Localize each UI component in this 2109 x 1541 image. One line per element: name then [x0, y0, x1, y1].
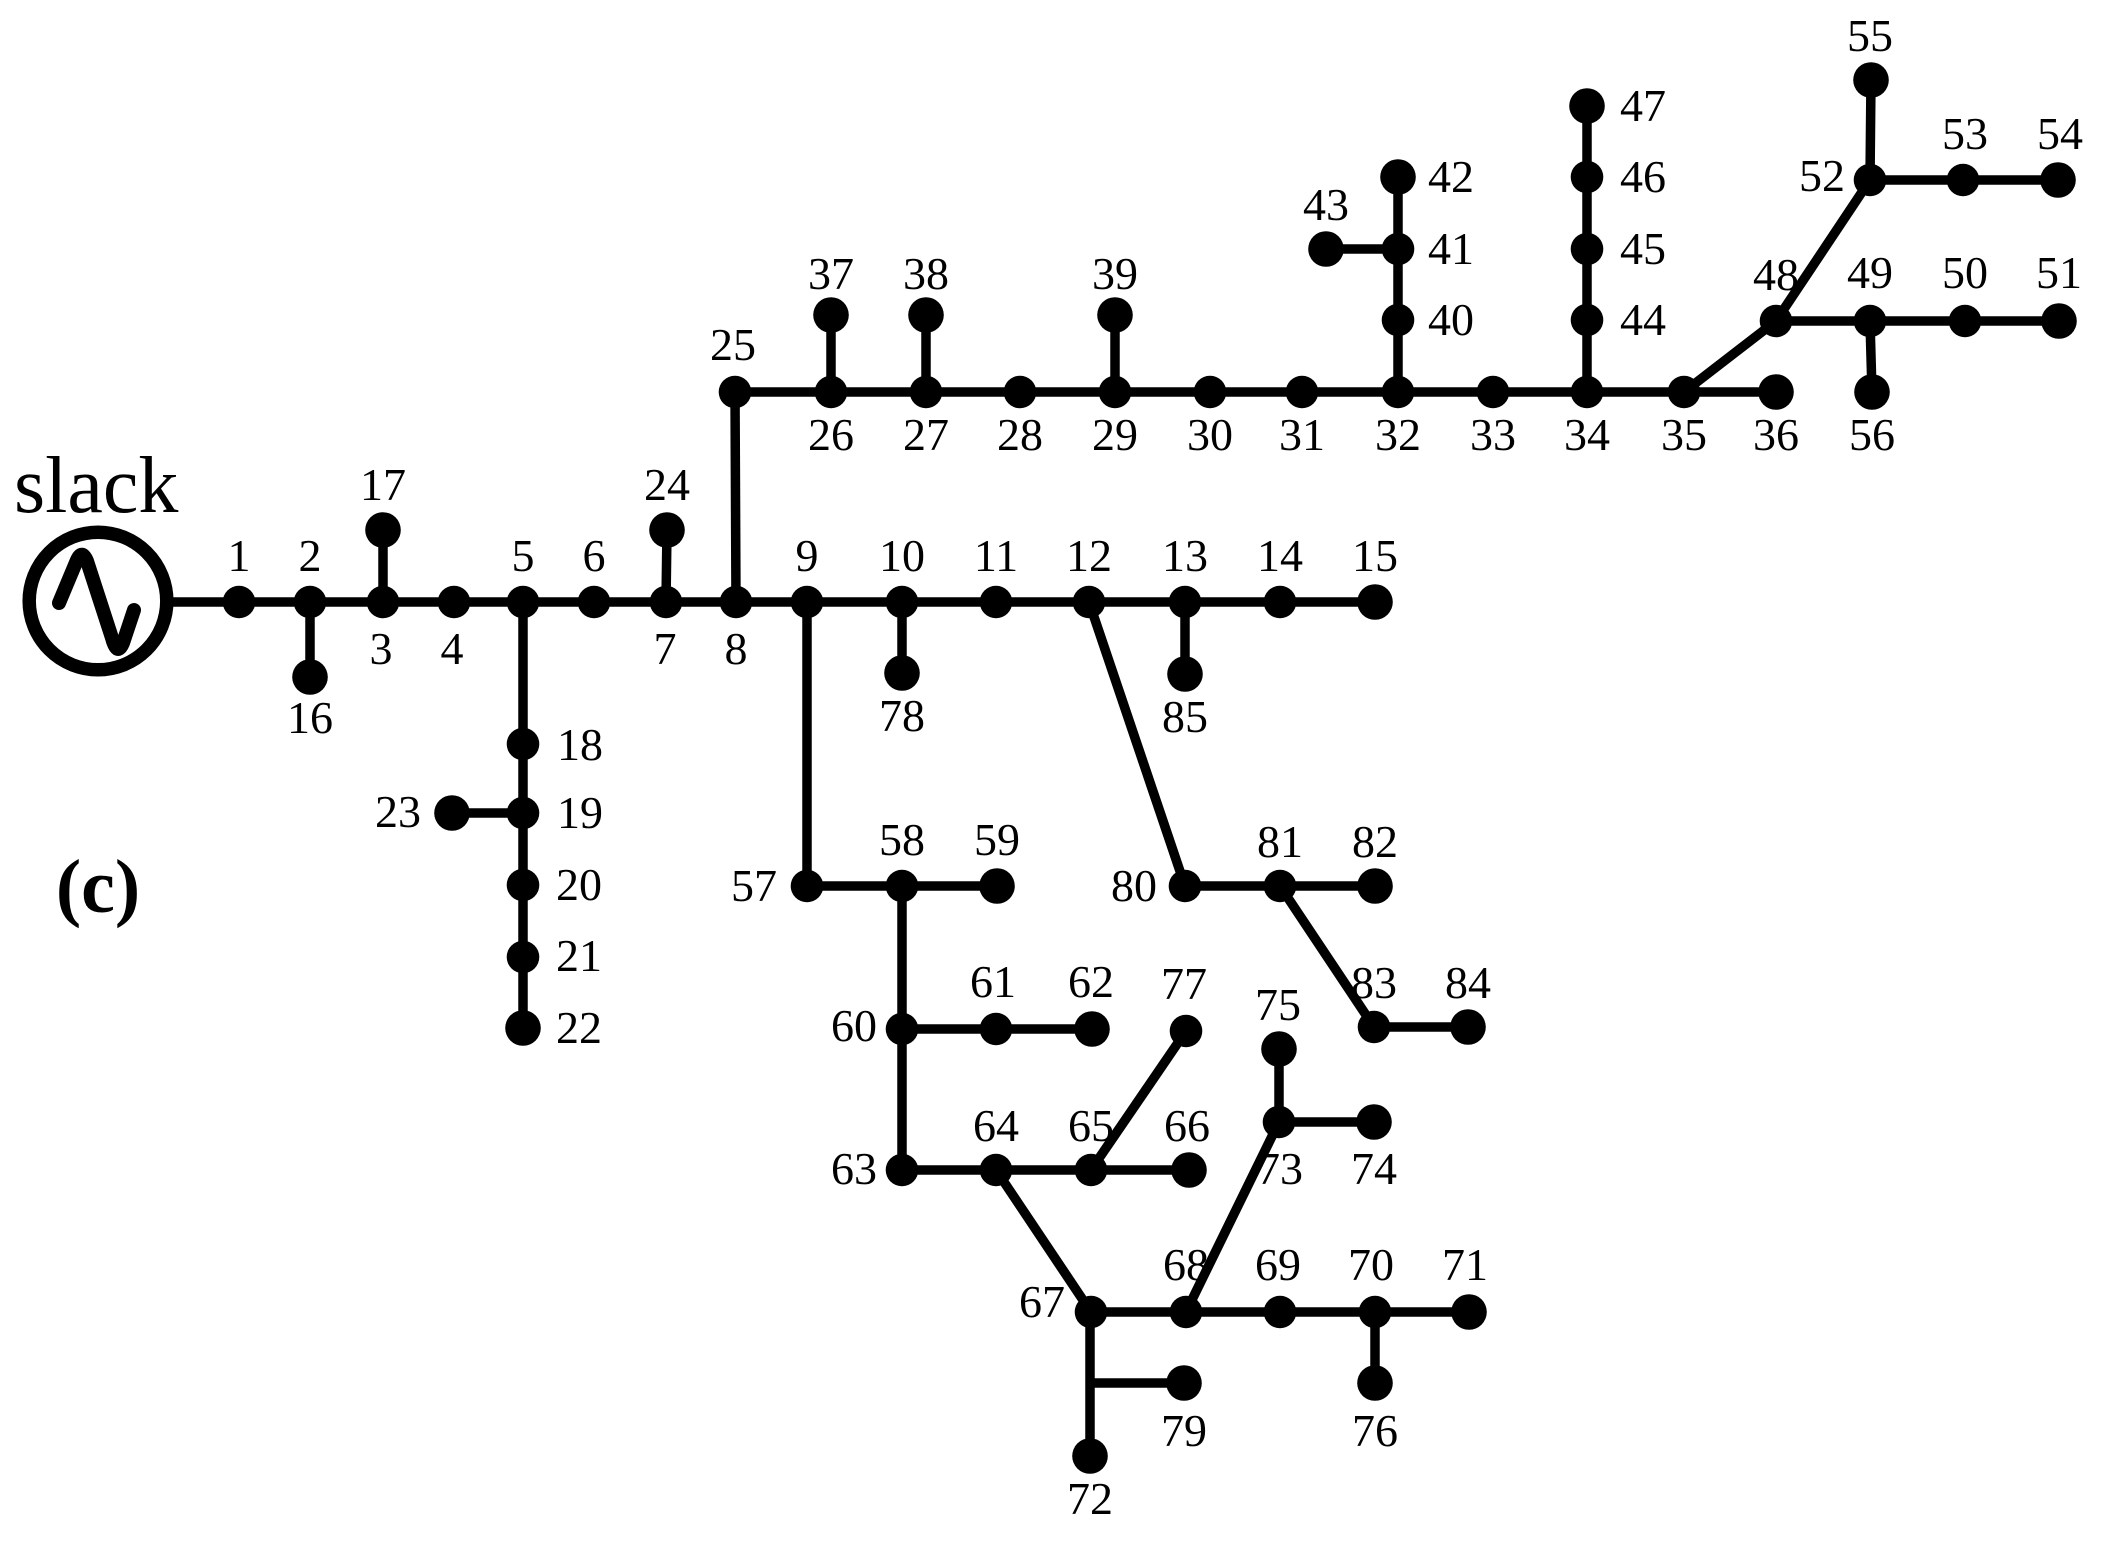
wire 41-43	[1326, 244, 1398, 254]
node 67 bus dot	[1075, 1296, 1108, 1329]
node 16 bus dot	[292, 659, 328, 695]
node 83 bus dot	[1358, 1011, 1391, 1044]
svg-text:78: 78	[879, 690, 925, 741]
svg-text:30: 30	[1187, 409, 1233, 460]
wire 57-58-59	[807, 881, 997, 891]
node 36 bus dot	[1758, 374, 1794, 410]
svg-text:64: 64	[973, 1100, 1019, 1151]
node 8 bus dot	[720, 586, 753, 619]
node 2 bus dot	[294, 586, 327, 619]
svg-text:69: 69	[1255, 1239, 1301, 1290]
node 22 bus dot	[505, 1010, 541, 1046]
svg-text:72: 72	[1067, 1473, 1113, 1524]
node 38 bus dot	[908, 297, 944, 333]
svg-text:44: 44	[1620, 294, 1666, 345]
svg-text:85: 85	[1162, 691, 1208, 742]
node 57 bus dot	[791, 870, 824, 903]
node 49 bus dot	[1854, 305, 1887, 338]
svg-text:18: 18	[557, 719, 603, 770]
wire 35-48	[1684, 321, 1776, 392]
wire 65-77	[1091, 1031, 1186, 1170]
node 43 bus dot	[1308, 231, 1344, 267]
node 3 bus dot	[367, 586, 400, 619]
node 10 bus dot	[886, 586, 919, 619]
node 77 bus dot	[1170, 1015, 1203, 1048]
svg-text:65: 65	[1068, 1100, 1114, 1151]
node 5 bus dot	[507, 586, 540, 619]
node 82 bus dot	[1357, 868, 1393, 904]
node 40 bus dot	[1382, 304, 1415, 337]
svg-text:24: 24	[644, 459, 690, 510]
svg-text:1: 1	[228, 530, 251, 581]
svg-text:28: 28	[997, 409, 1043, 460]
node 51 bus dot	[2041, 303, 2077, 339]
wire 52-55	[1870, 80, 1871, 180]
node 76 bus dot	[1357, 1365, 1393, 1401]
node 34 bus dot	[1571, 376, 1604, 409]
node 20 bus dot	[507, 869, 540, 902]
node 35 bus dot	[1668, 376, 1701, 409]
node 29 bus dot	[1099, 376, 1132, 409]
svg-text:31: 31	[1279, 409, 1325, 460]
svg-text:51: 51	[2036, 247, 2082, 298]
svg-text:67: 67	[1019, 1276, 1065, 1327]
svg-text:32: 32	[1375, 409, 1421, 460]
wire 29-39	[1110, 315, 1120, 392]
svg-text:84: 84	[1445, 957, 1491, 1008]
node 31 bus dot	[1286, 376, 1319, 409]
wire 27-38	[921, 315, 931, 392]
node 46 bus dot	[1571, 161, 1604, 194]
svg-text:8: 8	[725, 623, 748, 674]
svg-text:3: 3	[370, 623, 393, 674]
svg-text:57: 57	[731, 860, 777, 911]
svg-text:10: 10	[879, 530, 925, 581]
svg-text:5: 5	[512, 530, 535, 581]
svg-text:4: 4	[441, 623, 464, 674]
svg-text:73: 73	[1257, 1143, 1303, 1194]
svg-text:15: 15	[1352, 530, 1398, 581]
svg-text:37: 37	[808, 248, 854, 299]
svg-text:58: 58	[879, 814, 925, 865]
svg-text:21: 21	[556, 930, 602, 981]
node 64 bus dot	[980, 1154, 1013, 1187]
wire 83-84	[1374, 1022, 1468, 1032]
node 9 bus dot	[791, 586, 824, 619]
node 15 bus dot	[1357, 584, 1393, 620]
node 50 bus dot	[1949, 305, 1982, 338]
node 81 bus dot	[1264, 870, 1297, 903]
svg-text:34: 34	[1564, 409, 1610, 460]
wire slack-1-2-3-4-5-6-7-8-9-10-11-12-13-14-15 main feeder	[172, 597, 1375, 607]
node 33 bus dot	[1477, 376, 1510, 409]
node 74 bus dot	[1356, 1104, 1392, 1140]
wire 58-60	[897, 886, 907, 1029]
node 75 bus dot	[1261, 1031, 1297, 1067]
svg-text:16: 16	[287, 692, 333, 743]
node 56 bus dot	[1854, 374, 1890, 410]
svg-text:27: 27	[903, 409, 949, 460]
node 7 bus dot	[650, 586, 683, 619]
svg-text:55: 55	[1847, 10, 1893, 61]
node 85 bus dot	[1167, 656, 1203, 692]
node 68 bus dot	[1170, 1296, 1203, 1329]
node 62 bus dot	[1074, 1011, 1110, 1047]
svg-text:19: 19	[557, 787, 603, 838]
node 19 bus dot	[507, 797, 540, 830]
node 70 bus dot	[1359, 1296, 1392, 1329]
svg-text:25: 25	[710, 319, 756, 370]
node 72 bus dot	[1072, 1438, 1108, 1474]
svg-text:74: 74	[1351, 1143, 1397, 1194]
node 1 bus dot	[223, 586, 256, 619]
node 80 bus dot	[1169, 870, 1202, 903]
svg-text:11: 11	[974, 530, 1018, 581]
node 79 bus dot	[1166, 1365, 1202, 1401]
svg-text:26: 26	[808, 409, 854, 460]
svg-text:43: 43	[1303, 179, 1349, 230]
wire 10-78	[897, 602, 907, 673]
wire 7-24	[666, 530, 667, 602]
svg-text:50: 50	[1942, 247, 1988, 298]
node 65 bus dot	[1075, 1154, 1108, 1187]
wire 70-76	[1370, 1312, 1380, 1383]
svg-text:(c): (c)	[56, 845, 140, 929]
svg-text:76: 76	[1352, 1405, 1398, 1456]
wire 63-64-65-66	[902, 1165, 1189, 1175]
wire 8-25	[735, 392, 736, 602]
wire 13-85	[1180, 602, 1190, 674]
node 58 bus dot	[886, 870, 919, 903]
node 24 bus dot	[649, 512, 685, 548]
node 18 bus dot	[507, 728, 540, 761]
svg-text:47: 47	[1620, 80, 1666, 131]
svg-text:7: 7	[654, 623, 677, 674]
svg-text:12: 12	[1066, 530, 1112, 581]
node 45 bus dot	[1571, 233, 1604, 266]
node 13 bus dot	[1169, 586, 1202, 619]
wire 3-17	[378, 530, 388, 602]
node 23 bus dot	[434, 795, 470, 831]
svg-text:2: 2	[299, 530, 322, 581]
svg-text:33: 33	[1470, 409, 1516, 460]
wire 80-81-82	[1185, 881, 1375, 891]
wire 67-72	[1085, 1312, 1095, 1456]
node 37 bus dot	[813, 297, 849, 333]
wire 52-53-54	[1870, 175, 2058, 185]
node 41 bus dot	[1382, 233, 1415, 266]
svg-text:40: 40	[1428, 294, 1474, 345]
wire 26-37	[826, 315, 836, 392]
svg-text:38: 38	[903, 248, 949, 299]
wire 81-83	[1280, 886, 1374, 1027]
svg-text:14: 14	[1257, 530, 1303, 581]
svg-text:54: 54	[2037, 108, 2083, 159]
wire 60-61-62	[902, 1024, 1092, 1034]
node 6 bus dot	[578, 586, 611, 619]
svg-text:59: 59	[974, 814, 1020, 865]
node 32 bus dot	[1382, 376, 1415, 409]
wire 60-63	[897, 1029, 907, 1170]
svg-text:29: 29	[1092, 409, 1138, 460]
svg-text:39: 39	[1092, 248, 1138, 299]
node 25 bus dot	[719, 376, 752, 409]
svg-text:83: 83	[1351, 957, 1397, 1008]
svg-text:48: 48	[1753, 249, 1799, 300]
svg-text:45: 45	[1620, 223, 1666, 274]
svg-text:20: 20	[556, 859, 602, 910]
node 27 bus dot	[910, 376, 943, 409]
svg-text:49: 49	[1847, 247, 1893, 298]
node 30 bus dot	[1194, 376, 1227, 409]
node 14 bus dot	[1264, 586, 1297, 619]
wire 19-23	[452, 808, 523, 818]
svg-text:63: 63	[831, 1143, 877, 1194]
svg-text:60: 60	[831, 1000, 877, 1051]
svg-text:77: 77	[1161, 958, 1207, 1009]
wire 12-80	[1089, 602, 1185, 886]
svg-text:79: 79	[1161, 1405, 1207, 1456]
node 12 bus dot	[1073, 586, 1106, 619]
node 84 bus dot	[1450, 1009, 1486, 1045]
node 55 bus dot	[1853, 62, 1889, 98]
svg-text:6: 6	[583, 530, 606, 581]
wire 72-79 spur	[1090, 1378, 1184, 1388]
svg-text:9: 9	[796, 530, 819, 581]
node 78 bus dot	[884, 655, 920, 691]
svg-text:53: 53	[1942, 108, 1988, 159]
svg-text:slack: slack	[14, 442, 178, 530]
node 53 bus dot	[1947, 164, 1980, 197]
node 59 bus dot	[979, 868, 1015, 904]
wire 48-49-50-51	[1776, 316, 2059, 326]
svg-text:71: 71	[1442, 1239, 1488, 1290]
node 26 bus dot	[815, 376, 848, 409]
node 52 bus dot	[1854, 164, 1887, 197]
svg-text:56: 56	[1849, 409, 1895, 460]
wire 34-44-45-46-47	[1582, 106, 1592, 392]
node 28 bus dot	[1004, 376, 1037, 409]
svg-text:35: 35	[1661, 409, 1707, 460]
wire 2-16	[305, 602, 315, 677]
wire 25-26-27-28-29-30-31-32-33-34-35-36 upper feeder	[735, 387, 1776, 397]
node 66 bus dot	[1171, 1152, 1207, 1188]
node 48 bus dot	[1760, 305, 1793, 338]
node 11 bus dot	[980, 586, 1013, 619]
svg-text:82: 82	[1352, 816, 1398, 867]
svg-text:61: 61	[970, 956, 1016, 1007]
node 47 bus dot	[1569, 88, 1605, 124]
svg-text:17: 17	[360, 459, 406, 510]
node 61 bus dot	[980, 1013, 1013, 1046]
wire 5-18-19-20-21-22	[518, 602, 528, 1028]
node 60 bus dot	[886, 1013, 919, 1046]
node 54 bus dot	[2040, 162, 2076, 198]
svg-text:42: 42	[1428, 151, 1474, 202]
svg-text:75: 75	[1255, 979, 1301, 1030]
wire 68-73	[1186, 1122, 1279, 1312]
svg-text:36: 36	[1753, 409, 1799, 460]
node 63 bus dot	[886, 1154, 919, 1187]
svg-text:13: 13	[1162, 530, 1208, 581]
node 42 bus dot	[1380, 159, 1416, 195]
svg-text:81: 81	[1257, 816, 1303, 867]
slack source generator symbol	[29, 532, 167, 670]
wire 9-57	[802, 602, 812, 886]
node 39 bus dot	[1097, 297, 1133, 333]
svg-text:52: 52	[1799, 150, 1845, 201]
svg-text:23: 23	[375, 786, 421, 837]
svg-text:41: 41	[1428, 223, 1474, 274]
svg-text:62: 62	[1068, 956, 1114, 1007]
wire 48-52	[1776, 180, 1870, 321]
svg-text:22: 22	[556, 1002, 602, 1053]
svg-text:70: 70	[1348, 1239, 1394, 1290]
wire 73-75	[1274, 1049, 1284, 1122]
node 44 bus dot	[1571, 304, 1604, 337]
node 71 bus dot	[1451, 1294, 1487, 1330]
svg-text:46: 46	[1620, 151, 1666, 202]
wire 73-74	[1279, 1117, 1374, 1127]
node 4 bus dot	[438, 586, 471, 619]
wire 49-56	[1870, 321, 1872, 392]
wire 64-67	[996, 1170, 1091, 1312]
wire 32-40-41-42	[1393, 177, 1403, 392]
svg-text:80: 80	[1111, 860, 1157, 911]
node 21 bus dot	[507, 941, 540, 974]
svg-text:66: 66	[1164, 1100, 1210, 1151]
node 73 bus dot	[1263, 1106, 1296, 1139]
svg-text:68: 68	[1163, 1239, 1209, 1290]
node 17 bus dot	[365, 512, 401, 548]
wire 67-68-69-70-71	[1091, 1307, 1469, 1317]
node 69 bus dot	[1264, 1296, 1297, 1329]
